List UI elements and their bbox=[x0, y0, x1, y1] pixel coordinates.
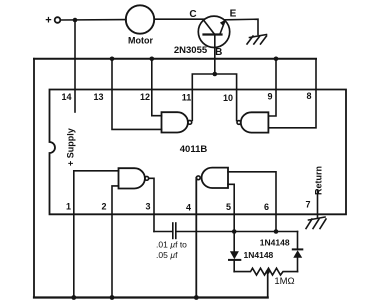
svg-text:+: + bbox=[45, 15, 51, 27]
svg-text:1N4148: 1N4148 bbox=[260, 237, 290, 247]
svg-text:3: 3 bbox=[145, 202, 150, 212]
svg-text:4011B: 4011B bbox=[180, 144, 208, 155]
svg-text:4: 4 bbox=[186, 203, 191, 213]
svg-text:12: 12 bbox=[140, 92, 150, 102]
svg-text:Return: Return bbox=[314, 166, 324, 195]
svg-text:11: 11 bbox=[182, 93, 192, 103]
svg-text:1MΩ: 1MΩ bbox=[274, 276, 294, 287]
svg-text:Motor: Motor bbox=[128, 36, 153, 46]
svg-text:C: C bbox=[189, 9, 196, 20]
svg-text:5: 5 bbox=[226, 202, 231, 212]
svg-text:2N3055: 2N3055 bbox=[174, 45, 208, 56]
svg-text:.01 µf to: .01 µf to bbox=[156, 240, 187, 250]
svg-text:7: 7 bbox=[305, 200, 310, 210]
svg-text:13: 13 bbox=[93, 92, 103, 102]
svg-text:1N4148: 1N4148 bbox=[244, 250, 274, 260]
svg-text:B: B bbox=[215, 47, 222, 58]
svg-text:9: 9 bbox=[267, 92, 272, 102]
svg-text:.05 µf: .05 µf bbox=[156, 250, 178, 260]
svg-text:8: 8 bbox=[306, 91, 311, 101]
svg-text:6: 6 bbox=[264, 202, 269, 212]
svg-text:E: E bbox=[230, 9, 237, 20]
svg-text:10: 10 bbox=[223, 93, 233, 103]
svg-text:2: 2 bbox=[101, 202, 106, 212]
svg-text:14: 14 bbox=[61, 92, 71, 102]
svg-text:+ Supply: + Supply bbox=[66, 128, 76, 166]
svg-text:1: 1 bbox=[66, 202, 71, 212]
